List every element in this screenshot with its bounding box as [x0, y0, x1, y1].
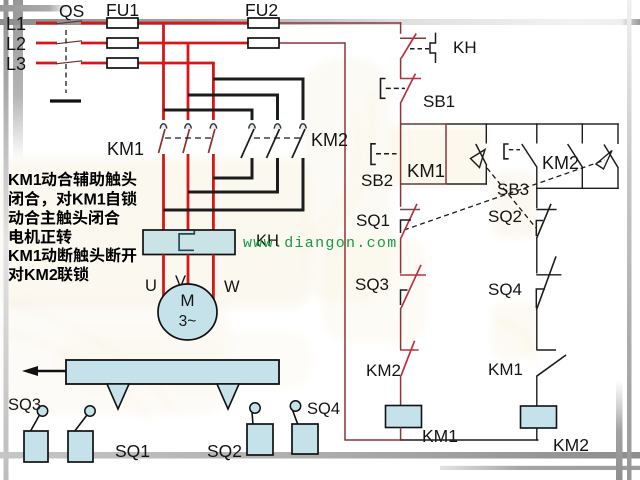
coil KM2 [521, 406, 557, 428]
coil KM1 [386, 406, 422, 428]
wire L3 [138, 62, 215, 65]
linkage dashed B [404, 160, 605, 230]
pushbutton SB3 (NO) [536, 123, 538, 143]
svg-text:KM2: KM2 [311, 130, 348, 150]
contactor KM2 main contacts [249, 124, 255, 129]
wire KM2 out to phase C [213, 177, 253, 180]
switch QS linkage [65, 30, 67, 93]
svg-text:SQ2: SQ2 [207, 441, 242, 461]
fuse FU2 [248, 22, 279, 24]
svg-text:SQ1: SQ1 [356, 211, 390, 230]
wire KM2 feed from L1 [164, 110, 253, 120]
contactor KM1 NC interlock [536, 349, 556, 351]
annotation text block [8, 171, 137, 284]
svg-text:KM1: KM1 [422, 426, 458, 446]
wire L2 horizontal [36, 42, 57, 45]
limit switch body SQ2 [252, 412, 253, 425]
limit switch SQ2 NO contact (triangle) [485, 123, 487, 143]
motor M1 [158, 284, 217, 340]
svg-text:FU1: FU1 [106, 0, 139, 20]
wire KM1 self-latch branch [445, 123, 447, 184]
svg-text:M: M [180, 291, 194, 310]
svg-text:KM1: KM1 [8, 248, 42, 265]
svg-text:www.diangon.com: www.diangon.com [243, 235, 398, 252]
wire control rail through SB2 [400, 102, 402, 207]
arrow [36, 370, 66, 372]
wire [400, 58, 402, 79]
limit switch SQ4 (NC) [536, 274, 561, 276]
svg-text:SQ4: SQ4 [488, 280, 522, 299]
svg-text:KM1: KM1 [8, 172, 42, 189]
svg-text:KM2: KM2 [24, 267, 58, 284]
svg-text:KM1: KM1 [107, 139, 144, 159]
contactor KM2 aux contact (NO) [581, 123, 583, 143]
wire KM2 feed from L2 [188, 95, 278, 120]
thermal relay KH heater box [143, 230, 235, 255]
limit switch SQ2 (NC) [536, 209, 556, 211]
limit switch SQ1 NO contact (triangle) [617, 123, 619, 144]
wire rail to branches [401, 123, 447, 125]
wire L3 horizontal [36, 62, 57, 65]
svg-text:KM1: KM1 [407, 160, 445, 181]
svg-text:KM2: KM2 [366, 361, 401, 380]
wire KM2 out to phase A [164, 209, 305, 212]
svg-text:KM1: KM1 [488, 360, 523, 379]
wire control rail top [400, 22, 402, 34]
relay contact KH (NC) [400, 37, 426, 39]
wire phase B drop [187, 43, 190, 120]
wire phase A drop [162, 23, 165, 120]
wire bottom rail [344, 439, 400, 441]
wire L2 to FU2 [138, 42, 249, 45]
wire L1 horizontal [36, 22, 57, 25]
svg-text:KH: KH [453, 38, 477, 57]
limit switch SQ3 (NC) [400, 274, 426, 276]
pushbutton SB1 (NC stop) [400, 78, 421, 80]
limit switch body SQ3 [30, 415, 40, 432]
wire W [212, 255, 215, 301]
svg-text:SQ3: SQ3 [8, 396, 41, 414]
wire sub-rail left [401, 183, 447, 185]
svg-text:U: U [145, 277, 157, 295]
switch QS blade pole 3 [56, 61, 82, 64]
dog triangle 2 [217, 384, 239, 409]
wire U [162, 255, 165, 297]
wire phase C drop [212, 63, 215, 120]
svg-text:SB1: SB1 [423, 92, 455, 111]
switch QS blade pole 2 [56, 41, 82, 44]
limit switch body SQ1 [74, 415, 87, 432]
wire L1 to FU2 and control rail [138, 22, 249, 25]
contactor KM1 main contacts [160, 124, 166, 129]
svg-text:FU2: FU2 [245, 0, 278, 20]
svg-text:KM2: KM2 [542, 153, 579, 173]
svg-text:SQ2: SQ2 [488, 207, 522, 226]
svg-text:W: W [224, 278, 240, 296]
wire SQ2 branch top [536, 188, 538, 208]
fuse FU1 [107, 22, 138, 24]
wire L2 branch to control circuit bottom [279, 42, 345, 44]
linkage dashed A [487, 168, 536, 228]
limit switch body SQ4 [293, 410, 299, 425]
svg-text:SQ1: SQ1 [115, 441, 150, 461]
wire sub-rail right [536, 187, 619, 189]
svg-text:L1: L1 [6, 14, 26, 34]
svg-text:SQ3: SQ3 [355, 275, 389, 294]
switch QS blade pole 1 [56, 21, 82, 24]
svg-text:L3: L3 [6, 54, 26, 74]
svg-text:L2: L2 [6, 34, 26, 54]
svg-text:QS: QS [59, 1, 84, 21]
svg-text:SB2: SB2 [361, 171, 393, 190]
decorative frame bars [4, 0, 9, 480]
wire V [187, 255, 190, 285]
svg-text:KM1: KM1 [72, 192, 106, 209]
dog triangle 1 [107, 384, 129, 409]
worktable [66, 360, 279, 384]
svg-text:KM2: KM2 [553, 435, 589, 455]
wire KM2 feed from L3 [213, 79, 303, 120]
svg-text:SQ4: SQ4 [307, 400, 340, 418]
svg-text:3~: 3~ [179, 313, 197, 330]
contactor KM2 NC interlock [400, 349, 419, 351]
linkage KM2 [254, 137, 301, 139]
wire KM2 out to phase B [188, 191, 279, 194]
pushbutton SB2 (NO start, shown closed in-line) [371, 144, 376, 165]
limit switch SQ1 (NC, in KM1 branch) [400, 209, 420, 211]
linkage KM1 [165, 137, 211, 139]
